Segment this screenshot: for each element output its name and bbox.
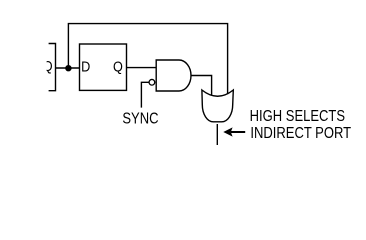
svg-text:HIGH SELECTS: HIGH SELECTS (250, 108, 345, 125)
svg-text:INDIRECT PORT: INDIRECT PORT (250, 125, 351, 142)
svg-text:D: D (81, 59, 90, 75)
svg-text:SYNC: SYNC (122, 111, 158, 128)
svg-text:Q: Q (113, 59, 123, 75)
